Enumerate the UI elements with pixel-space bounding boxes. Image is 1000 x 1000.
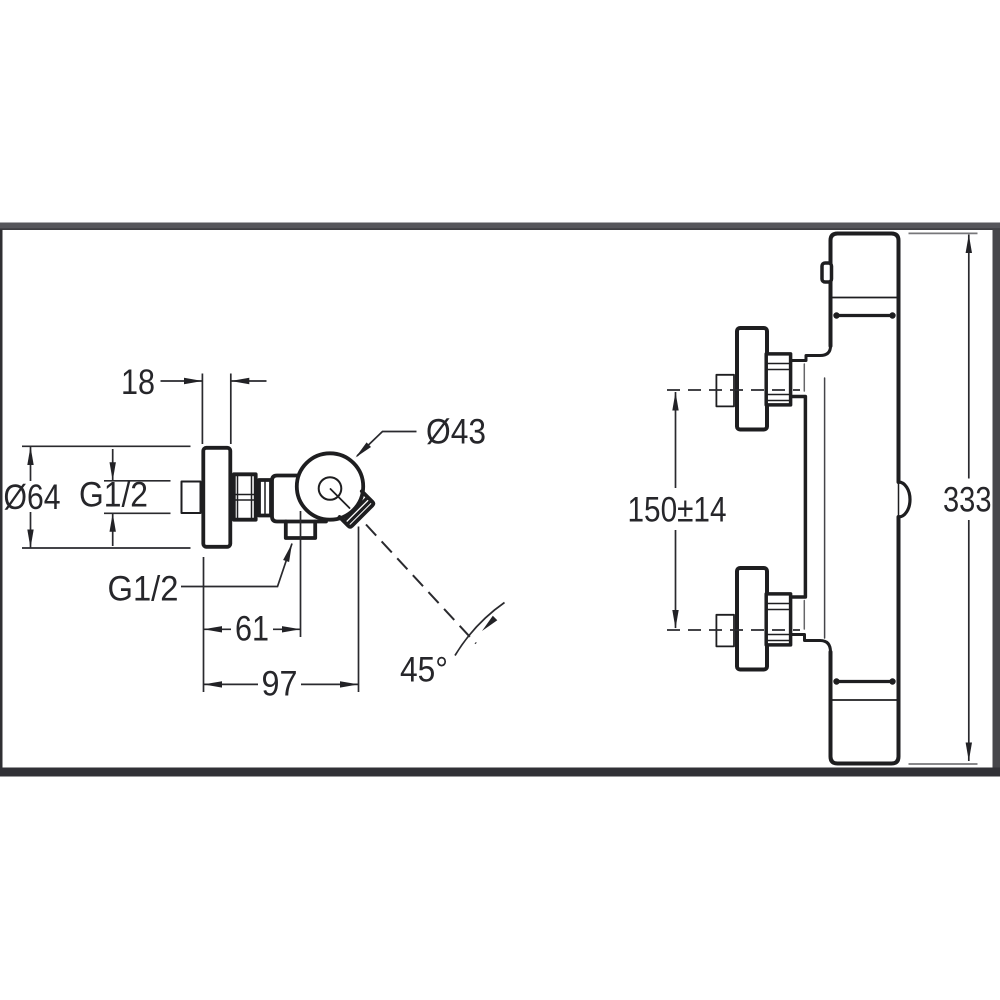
svg-text:Ø43: Ø43	[426, 413, 486, 452]
svg-text:61: 61	[235, 610, 269, 649]
svg-text:Ø64: Ø64	[4, 478, 61, 517]
svg-text:18: 18	[121, 363, 155, 402]
svg-text:45°: 45°	[400, 651, 448, 690]
svg-text:G1/2: G1/2	[79, 476, 148, 515]
svg-text:150±14: 150±14	[628, 491, 727, 530]
svg-text:97: 97	[262, 665, 298, 704]
svg-text:G1/2: G1/2	[108, 570, 179, 609]
svg-text:333: 333	[943, 481, 992, 520]
